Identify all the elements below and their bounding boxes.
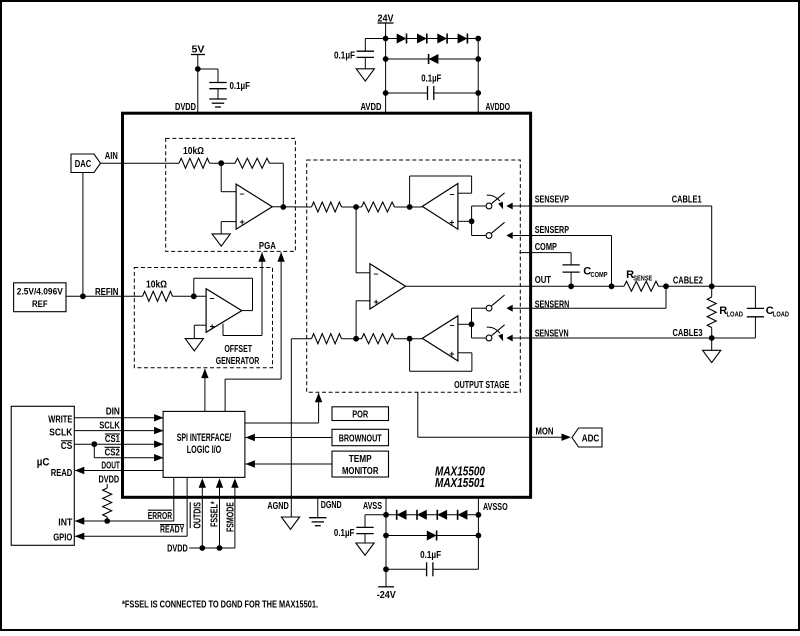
svg-text:2.5V/4.096V: 2.5V/4.096V <box>17 287 64 298</box>
svg-text:DOUT: DOUT <box>101 461 120 472</box>
svg-text:FSMODE: FSMODE <box>225 502 236 532</box>
svg-text:DVDD: DVDD <box>167 544 188 555</box>
svg-text:BROWNOUT: BROWNOUT <box>339 433 382 444</box>
svg-text:CS: CS <box>61 441 73 452</box>
svg-text:COMP: COMP <box>591 270 608 279</box>
svg-text:SPI INTERFACE/: SPI INTERFACE/ <box>177 432 232 444</box>
svg-text:OUTPUT STAGE: OUTPUT STAGE <box>454 380 509 391</box>
svg-text:TEMP: TEMP <box>349 454 372 465</box>
svg-text:COMP: COMP <box>535 242 557 253</box>
svg-text:OUTDIS: OUTDIS <box>193 502 204 528</box>
svg-text:10kΩ: 10kΩ <box>146 280 167 291</box>
svg-text:AGND: AGND <box>267 501 289 512</box>
svg-text:AIN: AIN <box>105 151 118 162</box>
svg-text:CS2: CS2 <box>105 448 120 459</box>
svg-text:AVDDO: AVDDO <box>486 102 511 113</box>
svg-text:–: – <box>210 293 215 303</box>
svg-text:+: + <box>374 297 379 307</box>
svg-text:0.1µF: 0.1µF <box>420 550 441 561</box>
svg-text:CABLE3: CABLE3 <box>673 328 703 339</box>
svg-text:AVSSO: AVSSO <box>483 502 508 513</box>
svg-text:+: + <box>210 322 215 332</box>
svg-text:SENSERN: SENSERN <box>535 300 570 311</box>
svg-text:AVSS: AVSS <box>363 501 382 512</box>
svg-text:MON: MON <box>536 427 554 438</box>
svg-text:MAX15501: MAX15501 <box>435 475 485 490</box>
svg-text:+: + <box>449 349 454 359</box>
svg-text:PGA: PGA <box>259 241 276 252</box>
svg-text:CS1: CS1 <box>105 434 120 445</box>
svg-text:READ: READ <box>51 468 73 479</box>
svg-text:DVDD: DVDD <box>175 102 196 113</box>
svg-text:SENSE: SENSE <box>633 274 652 283</box>
svg-text:*FSSEL IS CONNECTED TO DGND FO: *FSSEL IS CONNECTED TO DGND FOR THE MAX1… <box>122 600 318 611</box>
svg-text:CABLE1: CABLE1 <box>672 195 702 206</box>
svg-text:SENSEVN: SENSEVN <box>535 329 569 340</box>
svg-text:REFIN: REFIN <box>95 287 119 298</box>
svg-text:DVDD: DVDD <box>99 475 120 486</box>
svg-text:0.1µF: 0.1µF <box>421 74 441 85</box>
svg-text:–: – <box>449 189 454 199</box>
svg-text:OUT: OUT <box>535 275 552 286</box>
svg-text:GENERATOR: GENERATOR <box>216 356 260 367</box>
svg-text:SCLK: SCLK <box>49 427 72 438</box>
svg-text:DGND: DGND <box>321 500 342 511</box>
svg-text:GPIO: GPIO <box>53 533 72 544</box>
svg-text:SENSEVP: SENSEVP <box>535 195 569 206</box>
svg-text:0.1µF: 0.1µF <box>334 51 355 62</box>
svg-text:ADC: ADC <box>582 433 600 444</box>
svg-text:–: – <box>240 189 245 199</box>
svg-text:-24V: -24V <box>377 590 396 601</box>
svg-text:INT: INT <box>58 517 73 528</box>
svg-text:–: – <box>374 269 379 279</box>
svg-text:+: + <box>449 217 454 227</box>
svg-text:LOAD: LOAD <box>727 310 744 319</box>
svg-text:0.1µF: 0.1µF <box>230 81 251 92</box>
svg-text:OFFSET: OFFSET <box>224 344 252 355</box>
svg-text:WRITE: WRITE <box>48 415 72 426</box>
svg-text:10kΩ: 10kΩ <box>183 146 204 157</box>
svg-text:LOAD: LOAD <box>773 310 789 319</box>
svg-text:ERROR: ERROR <box>148 511 173 522</box>
svg-text:SENSERP: SENSERP <box>535 225 569 236</box>
svg-text:CABLE2: CABLE2 <box>673 275 703 286</box>
svg-text:MONITOR: MONITOR <box>342 466 379 477</box>
svg-text:–: – <box>449 320 454 330</box>
svg-text:0.1µF: 0.1µF <box>334 528 355 539</box>
svg-text:+: + <box>240 217 245 227</box>
svg-text:LOGIC I/O: LOGIC I/O <box>187 444 222 456</box>
svg-text:REF: REF <box>32 299 48 310</box>
svg-text:READY: READY <box>160 524 184 535</box>
svg-text:AVDD: AVDD <box>361 102 382 113</box>
svg-text:µC: µC <box>37 457 50 469</box>
svg-text:DIN: DIN <box>106 407 120 418</box>
svg-text:FSSEL*: FSSEL* <box>210 501 221 527</box>
svg-text:POR: POR <box>352 409 368 420</box>
svg-text:SCLK: SCLK <box>99 420 120 431</box>
svg-text:DAC: DAC <box>75 159 92 170</box>
